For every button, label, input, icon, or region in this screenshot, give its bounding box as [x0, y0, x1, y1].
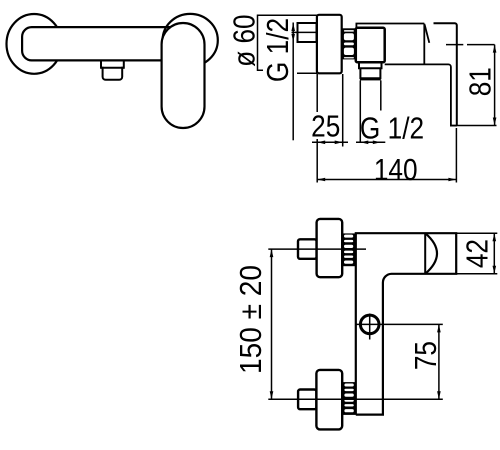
- svg-text:81: 81: [463, 67, 497, 96]
- svg-text:140: 140: [374, 153, 418, 187]
- svg-text:G 1/2: G 1/2: [360, 111, 424, 145]
- svg-text:25: 25: [311, 109, 340, 143]
- svg-text:ø 60: ø 60: [227, 14, 261, 66]
- svg-text:150 ± 20: 150 ± 20: [234, 265, 268, 374]
- svg-text:75: 75: [409, 341, 443, 370]
- svg-text:42: 42: [461, 239, 495, 268]
- svg-text:G 1/2: G 1/2: [261, 18, 295, 82]
